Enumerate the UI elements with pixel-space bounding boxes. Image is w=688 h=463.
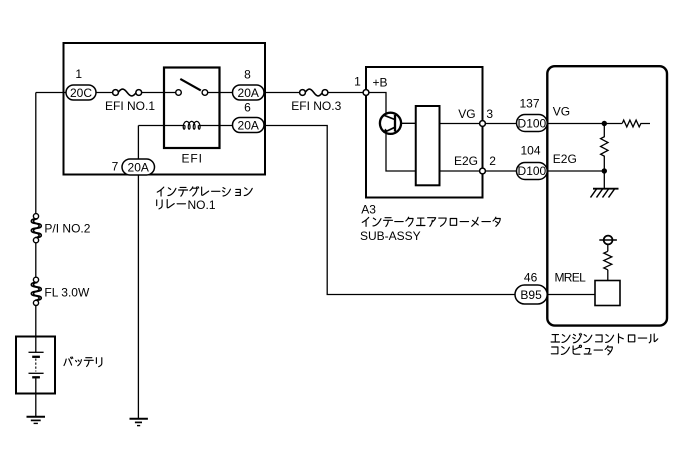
ground battery: [27, 394, 46, 424]
resistor R pullup horizontal: [622, 120, 650, 127]
label インテグレーション: [157, 187, 252, 197]
battery cells: [29, 337, 44, 394]
connector 20C pin 1: [66, 85, 96, 100]
svg-text:1: 1: [75, 67, 82, 81]
svg-text:8: 8: [244, 68, 251, 82]
svg-text:A3: A3: [361, 203, 376, 217]
svg-text:+B: +B: [373, 76, 388, 90]
wire relay coil to ground via pin 7: [137, 126, 139, 419]
connector 20A pin 6: [233, 118, 265, 133]
fuse EFI NO.3: [300, 89, 328, 96]
fusible link P/I NO.2: [31, 214, 41, 243]
svg-text:20A: 20A: [128, 160, 149, 174]
svg-text:B95: B95: [520, 288, 542, 302]
svg-text:20C: 20C: [70, 86, 92, 100]
MREL net inside ECU: [547, 244, 612, 294]
E2G net inside ECU: [547, 171, 604, 188]
label リレーNO.1: [157, 200, 186, 209]
fuse EFI NO.1: [113, 89, 142, 96]
ground internal ECU: [591, 189, 619, 198]
svg-text:FL 3.0W: FL 3.0W: [44, 286, 90, 300]
relay switch contact: [176, 79, 208, 95]
connector 20A pin 8: [233, 85, 265, 100]
junction dot VG: [602, 121, 607, 126]
svg-text:P/I NO.2: P/I NO.2: [44, 221, 90, 235]
svg-text:EFI: EFI: [182, 151, 203, 165]
A3 intake air flow meter box: [366, 67, 483, 198]
pin 3 VG: [480, 121, 486, 127]
connector B95 pin 46: [515, 285, 547, 304]
label インテークエアフローメータ: [362, 217, 500, 226]
svg-text:D100: D100: [518, 117, 547, 131]
wire 8/20A to EFI NO.3 to A3 pin 1: [264, 92, 363, 94]
relay box インテグレーションリレー NO.1: [64, 43, 266, 175]
svg-text:NO.1: NO.1: [188, 198, 216, 212]
svg-text:E2G: E2G: [454, 154, 478, 168]
svg-text:EFI NO.1: EFI NO.1: [105, 99, 155, 113]
label バッテリ: [64, 357, 102, 367]
connector D100 pin 137 VG: [517, 115, 548, 132]
wire relay coil row: [138, 125, 232, 127]
svg-text:7: 7: [112, 160, 119, 174]
svg-text:SUB-ASSY: SUB-ASSY: [360, 229, 421, 243]
svg-text:1: 1: [354, 75, 361, 89]
svg-text:EFI NO.3: EFI NO.3: [291, 99, 341, 113]
power terminal bar: [599, 239, 617, 241]
svg-text:VG: VG: [458, 107, 475, 121]
svg-text:46: 46: [524, 270, 538, 284]
svg-text:6: 6: [244, 100, 251, 114]
resistor divider vertical: [601, 124, 608, 172]
svg-text:104: 104: [520, 144, 540, 158]
svg-text:137: 137: [519, 97, 539, 111]
wire pin3 to D100: [485, 123, 516, 125]
svg-text:20A: 20A: [238, 118, 259, 132]
ECU box: [547, 66, 667, 325]
svg-text:D100: D100: [518, 164, 547, 178]
power terminal circle: [604, 236, 613, 245]
VG net inside ECU: [547, 120, 650, 188]
label コンピュータ: [551, 345, 612, 355]
wire pin2 to D100: [485, 170, 516, 172]
label エンジンコントロール: [551, 333, 658, 343]
resistor MREL vertical: [604, 251, 612, 270]
svg-text:3: 3: [486, 107, 493, 121]
relay coil: [183, 121, 200, 129]
wire 6/20A to B95 (MREL net): [264, 126, 515, 295]
transistor (air flow sensor element): [380, 113, 401, 134]
connector 20A pin 7: [122, 159, 155, 175]
svg-text:2: 2: [489, 154, 496, 168]
wire battery feed left vertical: [36, 93, 66, 337]
svg-text:E2G: E2G: [553, 152, 577, 166]
driver block square: [595, 281, 620, 306]
wire top row 20C to relay contact: [96, 92, 233, 94]
pin 1 +B: [363, 90, 369, 96]
battery box: [16, 337, 55, 394]
sensing element rectangle: [416, 106, 440, 185]
fusible link FL 3.0W: [31, 277, 41, 305]
svg-text:VG: VG: [553, 105, 570, 119]
svg-text:MREL: MREL: [555, 270, 587, 284]
ground relay pin 7: [130, 419, 148, 426]
EFI relay inner box: [164, 68, 220, 149]
connector D100 pin 104 E2G: [517, 163, 548, 180]
svg-text:20A: 20A: [238, 86, 259, 100]
wire +B internal: [369, 93, 480, 172]
junction dot E2G: [602, 168, 607, 173]
pin 2 E2G: [480, 168, 486, 174]
